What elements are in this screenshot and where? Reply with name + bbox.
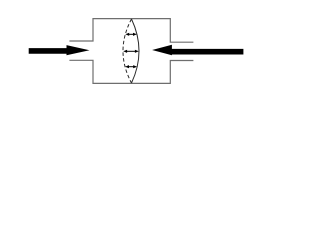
lens solid right curve: [132, 19, 140, 83]
left compression arrow: [29, 45, 90, 55]
double-headed arrow middle: [123, 50, 139, 53]
specimen box upper outline with notch flanges: [69, 19, 193, 43]
right compression arrow: [152, 45, 243, 55]
double-headed arrow lower: [125, 65, 137, 68]
double-headed arrow upper: [125, 33, 137, 36]
specimen box lower outline with notch flanges: [69, 60, 193, 83]
lens dashed left curve: [123, 19, 132, 83]
